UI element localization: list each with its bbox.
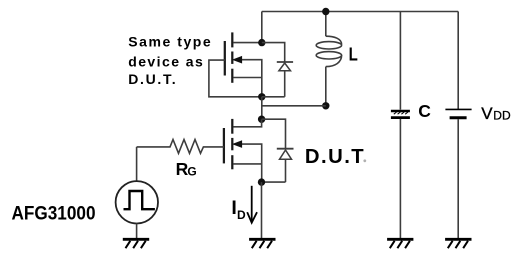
svg-text:G: G: [187, 165, 196, 179]
current arrow ID: [247, 186, 257, 223]
wire Q1 body arrow lead: [241, 60, 262, 97]
wire capacitor to ground: [399, 119, 401, 239]
svg-text:AFG31000: AFG31000: [12, 203, 96, 224]
node Q1 source junction: [258, 93, 265, 100]
wire trunk from rail to Q1 drain node: [261, 12, 263, 43]
capacitor C: [391, 111, 410, 118]
node DUT drain junction: [258, 116, 265, 123]
svg-text:DD: DD: [493, 109, 511, 123]
resistor RG: [137, 140, 224, 154]
svg-text:V: V: [481, 104, 493, 123]
inductor L: [316, 12, 341, 106]
wire trunk Q1 source to DUT drain node: [261, 97, 263, 119]
wire DUT source lead: [233, 163, 261, 165]
svg-text:device as: device as: [128, 54, 203, 70]
wire top rail: [262, 11, 458, 13]
svg-text:D.U.T: D.U.T: [305, 146, 364, 168]
svg-text:I: I: [231, 197, 236, 219]
wire DUT body arrow lead: [241, 144, 262, 182]
node inductor bottom junction: [322, 102, 329, 109]
node DUT source junction: [258, 178, 265, 185]
transistor Q1 (same type device as D.U.T.): [225, 32, 233, 82]
wire capacitor branch top: [399, 12, 401, 110]
node inductor top junction: [322, 8, 329, 15]
svg-text:Same type: Same type: [128, 34, 211, 50]
source AFG31000 pulse generator: [116, 181, 158, 223]
svg-text:D: D: [237, 208, 246, 222]
ground (AFG31000): [123, 239, 149, 248]
wire Q1 drain lead: [233, 42, 261, 44]
battery VDD: [445, 109, 471, 117]
ground (capacitor): [387, 239, 413, 248]
svg-text:L: L: [349, 45, 358, 65]
wire AFG output up to RG: [136, 147, 138, 181]
wire inductor bottom to trunk: [262, 105, 326, 107]
ground (D.U.T. source): [249, 239, 275, 248]
wire VDD branch top: [457, 12, 459, 110]
wire DUT drain lead: [233, 119, 261, 127]
svg-text:D.U.T.: D.U.T.: [128, 71, 175, 87]
transistor Q2 D.U.T.: [224, 119, 232, 169]
label D.U.T trailing period (faint): [363, 159, 366, 162]
wire Q1 source lead: [233, 77, 261, 79]
svg-text:C: C: [418, 101, 431, 121]
diode D2 (across D.U.T.): [262, 119, 294, 182]
wire AFG to ground: [136, 223, 138, 238]
node Q1 drain junction: [258, 39, 265, 46]
wire VDD to ground: [457, 119, 459, 238]
ground (VDD): [445, 239, 471, 248]
diode D1 (across Q1): [262, 43, 293, 97]
wire Q1 gate-source short: [209, 60, 262, 97]
wire DUT source to ground: [261, 182, 263, 238]
